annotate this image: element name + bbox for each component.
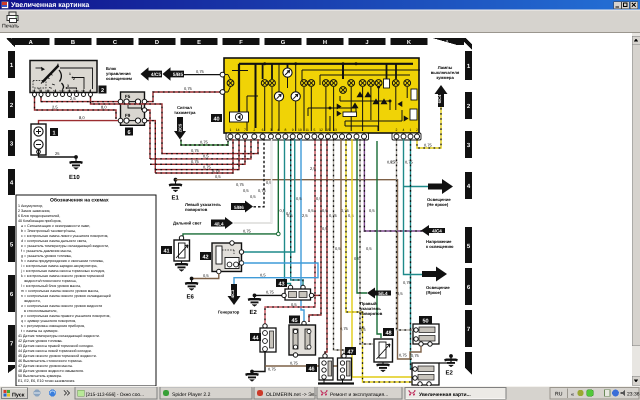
fuel gauge sender 42 [200,241,244,274]
svg-text:0,5: 0,5 [250,194,256,199]
svg-text:Обозначения на схемах: Обозначения на схемах [50,198,109,204]
svg-text:Дальний свет: Дальний свет [173,221,202,226]
svg-text:0,75: 0,75 [200,140,209,145]
svg-text:0,5: 0,5 [359,325,365,330]
label: Дальний свет [173,221,202,226]
scrollbar [632,33,640,386]
svg-text:2: 2 [396,128,398,132]
svg-text:0,75: 0,75 [258,188,267,193]
wire: switch feed down to nest row1 [91,97,259,154]
svg-text:поворотов: поворотов [360,311,383,316]
svg-text:n = контрольная лампа низкого: n = контрольная лампа низкого уровня охл… [21,294,111,298]
svg-text:6/C4: 6/C4 [437,94,442,103]
svg-text:12: 12 [319,128,323,132]
svg-text:0,5: 0,5 [296,196,302,201]
wire: gray pin to 47 [334,139,345,354]
svg-text:47 Датчик низкого уровня масла: 47 Датчик низкого уровня масла. [18,364,73,368]
battery 1 [31,124,58,155]
legend box [16,195,156,386]
svg-text:2,5: 2,5 [302,213,308,218]
label: Сигнал тахометра [174,105,196,115]
wire: fuse mid pin trunk to nest [147,110,150,159]
arrow left 4/C4 (voltage to lighting) [421,225,454,249]
label: Правый указатель поворотов [360,301,383,316]
svg-text:поворотов: поворотов [185,207,208,212]
svg-text:0,75: 0,75 [203,165,212,170]
wire: E2 to 43 left pin (0,75) [255,290,283,296]
svg-text:1: 1 [69,72,71,76]
ground E6 [185,277,198,301]
svg-text:1: 1 [52,131,55,137]
svg-text:0,75: 0,75 [403,280,412,285]
wire: teal pin to fuel sender 42 [242,139,295,252]
wire: green pin to 5/L4 arrow [357,139,367,293]
wire: brown bottom horizontal to 47 [265,139,341,366]
svg-text:к освещению: к освещению [426,244,454,249]
arrow right: Освещение (Яркое) [422,267,450,296]
parking brake switch 46 [306,354,333,380]
system tray [550,388,640,400]
svg-text:E: E [197,40,201,46]
svg-text:0,75: 0,75 [399,353,408,358]
svg-text:j = контрольная лампа износа т: j = контрольная лампа износа тормозных к… [20,269,105,273]
svg-text:43: 43 [278,282,284,288]
svg-text:25: 25 [55,151,60,156]
svg-text:(Яркое): (Яркое) [426,290,442,295]
taskbar [0,386,640,400]
wire: nest row5 to cluster pin [155,139,233,173]
wire: blue pin down to 45 [296,139,304,322]
svg-text:E2: E2 [446,370,454,377]
wire: dark red dashed pin to 46 [322,139,328,354]
wire: red dashed pin to 44 [265,139,316,324]
svg-text:44: 44 [252,336,259,342]
svg-text:40: 40 [213,117,219,123]
svg-text:B: B [71,40,75,46]
wire: yellow pin down to lower connector [352,139,412,377]
svg-text:5: 5 [313,128,315,132]
svg-text:G: G [281,39,286,46]
svg-text:10: 10 [298,128,302,132]
wire: teal right pin to lighting arrows [390,139,428,275]
wire: brown + 50 joining lower connector [410,346,421,359]
wire: green pin to 48 sensor [360,141,381,338]
svg-text:0,75: 0,75 [184,86,193,91]
ground E10 [69,157,83,181]
svg-text:42: 42 [202,255,208,261]
wire: 44 to ground (bottom left) [246,352,277,381]
svg-text:2: 2 [253,128,255,132]
svg-text:освещением: освещением [106,76,132,81]
svg-text:5/L4: 5/L4 [378,291,388,296]
arrow right: Освещение (Не яркое) [427,179,453,207]
svg-text:0,5: 0,5 [366,246,372,251]
wire: teal dashed pin to 43 top pin2 [291,139,303,286]
svg-text:(Не яркое): (Не яркое) [427,202,449,207]
cluster pin numbers row [229,128,418,132]
wire: yellow-black cluster to 6/C4 (0,75) [417,107,441,148]
cluster lamps (circle-X symbols) [227,68,411,101]
svg-text:3: 3 [270,128,272,132]
brake fluid switch 45 [289,316,316,358]
svg-text:l = контрольный блок уровня ма: l = контрольный блок уровня масла, [21,284,81,288]
svg-text:1 Аккумулятор,: 1 Аккумулятор, [18,204,43,208]
cluster left edge connector rings [220,72,230,94]
svg-text:жидкости,: жидкости, [24,299,41,303]
svg-text:p = контрольная лампа правого: p = контрольная лампа правого указателя … [21,314,110,318]
wire: switch to F5 (2,5) [41,96,118,102]
wire: purple dashed pin to 4/C4 arrow [364,139,424,251]
coolant temp sensor 41 [161,236,190,272]
svg-text:E1, E2, E6, E10 точки заземле: E1, E2, E6, E10 точки заземления. [18,379,75,383]
arrow up 6/C4 (buzzer switch lamps) [435,85,448,107]
svg-text:0,75: 0,75 [268,367,277,372]
wire: F9 trunk down to nest rows [147,121,155,173]
svg-text:0,75: 0,75 [212,168,221,173]
svg-text:46: 46 [308,367,314,373]
wire: teal dashed right pin to lower connector [397,139,413,369]
instrument cluster 40 (yellow block) [224,58,419,133]
svg-text:2: 2 [101,88,104,94]
connector 50 [413,316,439,346]
svg-text:2: 2 [416,128,418,132]
svg-text:в стеклоомывателе,: в стеклоомывателе, [24,309,57,313]
svg-text:0,75: 0,75 [411,353,420,358]
svg-text:11: 11 [305,128,309,132]
wire: brown E1 to right column (0,5) [176,174,413,359]
svg-text:4: 4 [403,128,405,132]
svg-text:d = контрольная лампа дальнего: d = контрольная лампа дальнего света, [21,239,87,243]
svg-text:2,5: 2,5 [310,166,316,171]
wire: green pin to sensor 41 (0,75) [183,139,280,237]
wire: tacho green dashed to cluster pin (0,75) [181,140,228,146]
arrow 5/B5 [163,67,185,81]
task button 5 (active) [405,388,506,400]
svg-text:0,75: 0,75 [266,290,275,295]
svg-text:E10: E10 [69,174,80,181]
svg-text:15: 15 [326,128,330,132]
svg-text:F: F [239,40,243,46]
svg-text:42 Датчик уровня топлива.: 42 Датчик уровня топлива. [18,339,63,343]
toolbar [0,10,640,34]
ground E1 [169,178,182,202]
svg-text:g = указатель уровня топлива,: g = указатель уровня топлива, [21,254,72,258]
svg-text:зуммера: зуммера [436,75,454,80]
svg-text:47: 47 [347,350,353,356]
svg-text:o = контрольная лампа низкого: o = контрольная лампа низкого уровня жид… [21,304,102,308]
cluster interior wiring [232,63,420,131]
svg-text:E6: E6 [187,294,195,301]
ground bar under 46/47 [318,380,354,384]
title bar [0,0,640,10]
wire: 43 right pin dashed down to 45 (0,5) [291,295,321,307]
svg-text:t = лампы на зуммере.: t = лампы на зуммере. [21,329,58,333]
svg-text:0,5: 0,5 [397,291,403,296]
svg-text:0,5: 0,5 [203,154,209,159]
svg-text:0,5: 0,5 [291,302,297,307]
arrow down 4/C3 (generator) [218,284,241,315]
svg-text:5/B5: 5/B5 [173,72,183,78]
wire: gray dashed to 48 left pin [359,139,373,344]
arrow 4/L4 (high beam) [211,217,233,229]
svg-text:1: 1 [229,128,231,132]
svg-text:F9: F9 [125,113,131,118]
svg-text:0,75: 0,75 [243,228,252,233]
svg-text:q = зуммер указателя поворотов: q = зуммер указателя поворотов, [21,319,76,323]
wire: battery to ground E10 (25) [39,149,78,159]
svg-text:4/C5: 4/C5 [151,72,161,78]
svg-text:0,5: 0,5 [369,208,375,213]
svg-text:Пуск: Пуск [12,393,25,399]
wire: yellow-black dashed pin down then right [340,139,413,382]
svg-text:41: 41 [163,249,169,255]
start button [2,388,28,399]
svg-text:a = Сигнализация о неисправнос: a = Сигнализация о неисправности ламп, [21,224,90,228]
label 40 (instrument cluster) [211,114,222,123]
svg-text:45 Датчик низкого уровня тормо: 45 Датчик низкого уровня тормозной жидко… [18,354,97,358]
svg-text:41 Датчик температуры охлаждаю: 41 Датчик температуры охлаждающей жидкос… [18,334,100,338]
svg-text:0,5: 0,5 [348,213,354,218]
svg-text:2 Замок зажигания,: 2 Замок зажигания, [18,209,50,213]
svg-text:14: 14 [236,128,240,132]
svg-text:6: 6 [127,130,130,136]
wire: F5 to cluster pin (0,75) [147,86,220,102]
svg-text:i = контрольная лампа зарядки: i = контрольная лампа зарядки аккумулято… [21,264,98,268]
wire: battery to F9 (8,0) [39,115,119,124]
brake pad sensor 43 [276,279,314,300]
wire: 5/B5 to cluster pin (0,75) [184,69,220,75]
label: Блок управления освещением [106,66,132,81]
svg-text:[215-113-656] - Окно соо...: [215-113-656] - Окно соо... [86,392,144,398]
cluster buzzer t (speaker box) [230,112,249,122]
svg-text:Увеличенная картинка: Увеличенная картинка [11,2,89,9]
svg-text:43 Датчик износа правой тормоз: 43 Датчик износа правой тормозной колодк… [18,344,94,348]
task button 3 [254,388,319,400]
svg-text:6: 6 [262,128,264,132]
brake pad sensor 44 [250,324,276,352]
svg-text:F5: F5 [125,94,131,99]
cluster resistors [343,79,417,120]
svg-text:m = контрольная лампа низкого: m = контрольная лампа низкого уровня мас… [21,289,99,293]
svg-text:Ремонт и эксплуатация...: Ремонт и эксплуатация... [330,392,388,398]
svg-text:c = контрольная лампа левого у: c = контрольная лампа левого указателя п… [21,234,108,238]
arrow 5/L4 (right turn signal) [367,288,391,299]
window buttons [614,2,638,9]
svg-text:0,75: 0,75 [191,159,200,164]
svg-text:E2: E2 [250,309,258,316]
svg-text:Spider Player 2.2: Spider Player 2.2 [172,392,211,398]
svg-text:H: H [323,40,327,46]
svg-text:0,5: 0,5 [243,188,249,193]
svg-text:9: 9 [292,128,294,132]
svg-text:45: 45 [291,318,297,324]
svg-text:8,0: 8,0 [101,105,107,110]
svg-text:8: 8 [284,128,286,132]
wire: 42 to ground E6 (0,5) [192,273,219,279]
svg-text:50 Выключатель зуммера.: 50 Выключатель зуммера. [18,374,62,378]
svg-text:0,5: 0,5 [308,208,314,213]
svg-text:44 Датчик износа левой тормозн: 44 Датчик износа левой тормозной колодки… [18,349,92,353]
svg-text:f = указатель давления масла,: f = указатель давления масла, [21,249,72,253]
svg-text:2/C5: 2/C5 [178,123,183,132]
svg-text:5/B6: 5/B6 [234,205,244,210]
wire: black dashed pin to 5/B6 [236,139,375,218]
light switch 2 [30,61,107,97]
svg-text:48: 48 [385,331,391,337]
svg-text:40 Комбинация приборов,: 40 Комбинация приборов, [18,219,62,223]
svg-text:4/C4: 4/C4 [432,229,442,234]
svg-text:0,5: 0,5 [316,196,322,201]
wire: dark red dashed pin to 45 second pin [309,139,322,322]
wire: white pin to 4/L4 [234,139,272,223]
svg-text:3: 3 [67,84,69,88]
label: Левый указатель поворотов [185,202,221,212]
washer fluid sensor 48 [374,328,394,372]
diagram frame: left border bar with row numbers [7,38,16,373]
svg-text:s = регулировка освещения приб: s = регулировка освещения приборов, [21,324,85,328]
svg-text:0,75: 0,75 [191,148,200,153]
svg-text:J: J [365,40,368,46]
svg-text:D: D [155,40,159,46]
wire: nest row4 to cluster pin [155,139,239,170]
svg-text:«: « [571,392,574,398]
svg-text:тахометра: тахометра [174,110,196,115]
diagram frame: top header boxes A-L [12,38,464,46]
cluster bottom connector strips [226,133,421,140]
svg-text:b = Электронный тахометр/часы,: b = Электронный тахометр/часы, [21,229,76,233]
svg-text:e = указатель температуры охла: e = указатель температуры охлаждающей жи… [21,244,109,248]
wire: switch to F9 (2,5 / 8,0) [35,97,117,120]
svg-text:6 Блок предохранителей,: 6 Блок предохранителей, [18,214,60,218]
quick launch icons [34,390,70,397]
svg-text:46 Выключатель стояночного тор: 46 Выключатель стояночного тормоза. [18,359,83,363]
wire: blue 42 to generator arrow 4/C3 [234,263,318,284]
svg-text:4: 4 [277,128,279,132]
svg-text:0,5: 0,5 [322,226,328,231]
arrow 5/B6 (left turn signal) [231,201,253,213]
svg-text:L: L [446,40,450,46]
svg-text:1: 1 [410,128,412,132]
svg-text:8,0: 8,0 [79,115,85,120]
svg-text:23:36: 23:36 [627,392,640,398]
svg-text:2,5: 2,5 [70,96,76,101]
arrow down 2/C5 (tachometer signal) [174,117,186,140]
task button 2 [160,388,252,400]
fuse box 6 with F5 F9 [118,92,147,136]
svg-text:Печать: Печать [2,24,19,30]
svg-text:2,5: 2,5 [52,105,58,110]
svg-text:Генератор: Генератор [218,310,240,315]
svg-text:0,75: 0,75 [424,143,433,148]
svg-text:0,5: 0,5 [203,273,209,278]
wire: gray right pin to 50 [387,139,413,330]
svg-text:0,75: 0,75 [405,160,414,165]
svg-text:жидкости/стояночного тормоза,: жидкости/стояночного тормоза, [24,279,77,283]
ground E2 (middle) [248,294,261,317]
svg-text:4/L4: 4/L4 [214,221,224,226]
diagram frame: right border bar with row numbers [461,38,472,375]
svg-text:0: 0 [57,63,59,67]
oil level sensor 47 [338,347,357,380]
svg-text:k = контрольная лампа низкого: k = контрольная лампа низкого уровня тор… [21,274,104,278]
svg-text:0,75: 0,75 [236,182,245,187]
cluster bottom pin circles [228,134,420,139]
lower connector (buzzer contact) [412,363,439,386]
svg-text:0,75: 0,75 [290,361,299,366]
label: Лампы выключателя зуммера [431,65,460,80]
svg-text:OLDMERIN.net -> Эл...: OLDMERIN.net -> Эл... [266,392,319,398]
svg-text:0,75: 0,75 [196,69,205,74]
svg-text:E1: E1 [172,195,180,202]
wire: nest row3 to cluster pin [150,139,245,164]
svg-text:7: 7 [244,128,246,132]
arrow 4/C5 [141,67,163,81]
svg-text:h = лампа предупреждения о око: h = лампа предупреждения о окончании топ… [21,259,104,263]
task button 4 [317,388,402,400]
wire: nest row2 to cluster pin [150,139,251,159]
svg-text:13: 13 [333,128,337,132]
svg-text:48 Датчик уровня жидкости омыв: 48 Датчик уровня жидкости омывателя. [18,369,84,373]
svg-text:0,5: 0,5 [215,174,221,179]
svg-text:4/C3: 4/C3 [230,289,235,298]
svg-text:Увеличенная карти...: Увеличенная карти... [419,392,471,398]
ground E2 (right) [439,354,458,376]
svg-text:0,75: 0,75 [387,160,396,165]
wire: teal pin to 43 top pin1 [285,139,293,286]
svg-text:0,5: 0,5 [260,272,266,277]
svg-text:RU: RU [555,392,563,398]
task button 1 [75,388,157,400]
